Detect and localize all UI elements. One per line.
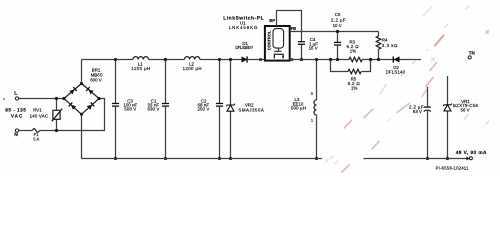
wire source rail	[290, 59, 349, 61]
svg-text:3.3 kΩ: 3.3 kΩ	[382, 43, 398, 48]
terminal L	[14, 90, 18, 100]
node VR1 bottom	[446, 157, 449, 160]
node C6 bottom	[426, 157, 429, 160]
svg-text:2.2 µF: 2.2 µF	[331, 18, 346, 23]
wire source rail right of R3	[362, 59, 421, 61]
speck left margin	[3, 98, 5, 100]
node RV1-L	[55, 97, 58, 100]
node C2 bottom	[218, 157, 221, 160]
svg-text:16 V: 16 V	[309, 46, 318, 51]
svg-text:48 V, 90 mA: 48 V, 90 mA	[456, 150, 487, 156]
wire N to fuse	[19, 130, 33, 132]
wire BP over IC to C4	[277, 11, 302, 42]
svg-text:PI-6558-102411: PI-6558-102411	[436, 166, 469, 171]
svg-text:10 V: 10 V	[333, 23, 342, 28]
wire L line	[19, 98, 64, 100]
svg-text:VAC: VAC	[11, 114, 23, 119]
svg-text:630 V: 630 V	[148, 107, 160, 112]
terminal N	[14, 129, 18, 138]
svg-text:CONTROL: CONTROL	[266, 30, 271, 50]
node R4 bottom / D2 anode	[377, 58, 380, 61]
node C5 bottom	[336, 58, 339, 61]
svg-text:RV1: RV1	[33, 108, 42, 113]
svg-text:BP: BP	[269, 18, 275, 23]
terminal output TN	[468, 51, 475, 59]
inductor L3	[291, 60, 317, 159]
svg-text:L: L	[14, 90, 17, 96]
pin BP	[269, 11, 276, 27]
resistor R5 parallel branch	[331, 60, 371, 91]
node bridge right	[97, 97, 100, 100]
svg-text:140 VAC: 140 VAC	[30, 114, 48, 119]
capacitor C6	[409, 87, 431, 159]
fuse F1	[32, 129, 39, 142]
svg-text:1200 µH: 1200 µH	[183, 66, 202, 71]
node R5 left	[329, 58, 332, 61]
svg-text:85 - 135: 85 - 135	[5, 108, 26, 113]
node RV1-N	[55, 129, 58, 132]
node bridge top	[80, 82, 83, 85]
node C2 top	[218, 58, 221, 61]
svg-text:DFLS160-7: DFLS160-7	[235, 45, 254, 50]
wire FB to feedback network	[290, 31, 379, 33]
svg-text:FB: FB	[291, 26, 297, 31]
svg-text:63 V: 63 V	[413, 109, 422, 114]
svg-text:C5: C5	[335, 12, 341, 17]
svg-text:N: N	[14, 132, 18, 138]
svg-text:TN: TN	[469, 51, 475, 56]
wire N line	[40, 99, 105, 131]
node C3 bottom	[114, 157, 117, 160]
capacitor C1	[148, 60, 170, 159]
svg-text:600 V: 600 V	[90, 78, 102, 83]
zener diode VR1	[443, 76, 478, 159]
node C3 top	[114, 58, 117, 61]
node VR2 bottom	[229, 157, 232, 160]
bridge rectifier BR1	[64, 67, 103, 114]
inductor L2	[183, 57, 202, 72]
svg-text:500 µH: 500 µH	[291, 106, 306, 111]
varistor RV1	[30, 99, 63, 131]
svg-text:1%: 1%	[351, 85, 357, 90]
wire bridge bottom to bottom rail	[81, 114, 83, 158]
capacitor C2	[198, 60, 224, 159]
node C4 source rail	[300, 58, 303, 61]
TVS diode VR2	[226, 60, 264, 159]
svg-text:LNK458KG: LNK458KG	[229, 25, 258, 30]
terminal output 48V	[456, 150, 487, 161]
wire top rail left	[82, 59, 134, 61]
svg-text:SMAJ350A: SMAJ350A	[238, 107, 263, 112]
diode D1	[235, 41, 265, 63]
node C1 bottom	[164, 157, 167, 160]
watermark remnants	[326, 6, 490, 172]
label input voltage	[5, 108, 26, 119]
svg-text:1200 µH: 1200 µH	[131, 66, 150, 71]
svg-text:3: 3	[311, 91, 313, 96]
svg-text:56 V: 56 V	[461, 108, 470, 113]
capacitor C4	[298, 37, 318, 59]
resistor R3	[347, 40, 363, 62]
resistor R4	[376, 32, 398, 60]
node L3 top	[315, 58, 318, 61]
capacitor C5	[331, 12, 346, 59]
node bridge left	[62, 97, 65, 100]
wire bottom rail left	[82, 158, 323, 160]
node L3 bottom	[315, 157, 318, 160]
inductor L1	[131, 57, 150, 72]
node C1 top	[164, 58, 167, 61]
diode D2	[386, 56, 406, 74]
svg-text:D: D	[259, 57, 262, 62]
IC U1 LinkSwitch-PL LNK458KG	[223, 15, 294, 62]
wire bridge top to rail	[81, 60, 83, 84]
svg-text:1%: 1%	[350, 48, 356, 53]
node VR2 top	[229, 58, 232, 61]
svg-text:500 V: 500 V	[124, 107, 136, 112]
svg-text:1: 1	[311, 117, 313, 122]
wire top rail L2 to D1	[200, 59, 242, 61]
node C5 top	[336, 30, 339, 33]
svg-text:250 V: 250 V	[198, 107, 210, 112]
capacitor C3	[112, 60, 138, 159]
svg-text:R4: R4	[382, 38, 388, 43]
wire top rail L1 to L2	[149, 59, 185, 61]
svg-text:5 A: 5 A	[33, 136, 39, 141]
node bridge bottom	[80, 113, 83, 116]
wire bottom rail right	[364, 158, 471, 160]
node R5 right	[369, 58, 372, 61]
